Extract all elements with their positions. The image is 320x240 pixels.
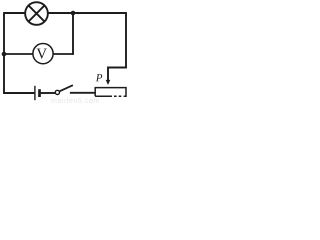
node junction left (2, 52, 7, 57)
voltmeter V (33, 44, 53, 64)
rheostat wiper arrow (106, 80, 111, 85)
wire right (108, 12, 126, 81)
node junction top (71, 11, 76, 16)
switch S1 (55, 85, 73, 94)
lamp L1 (25, 2, 48, 25)
svg-text:manfen5.com: manfen5.com (51, 98, 100, 104)
wire top (4, 12, 126, 14)
wire junction drop (72, 13, 74, 55)
wire bottom left (4, 91, 34, 94)
wire switch to rheostat (70, 92, 96, 94)
wire left (3, 12, 5, 93)
wire voltmeter branch (4, 53, 73, 55)
wire battery to switch (41, 92, 56, 94)
label P (96, 74, 102, 81)
battery B1 (35, 86, 40, 100)
rheostat R1 box (95, 88, 126, 97)
